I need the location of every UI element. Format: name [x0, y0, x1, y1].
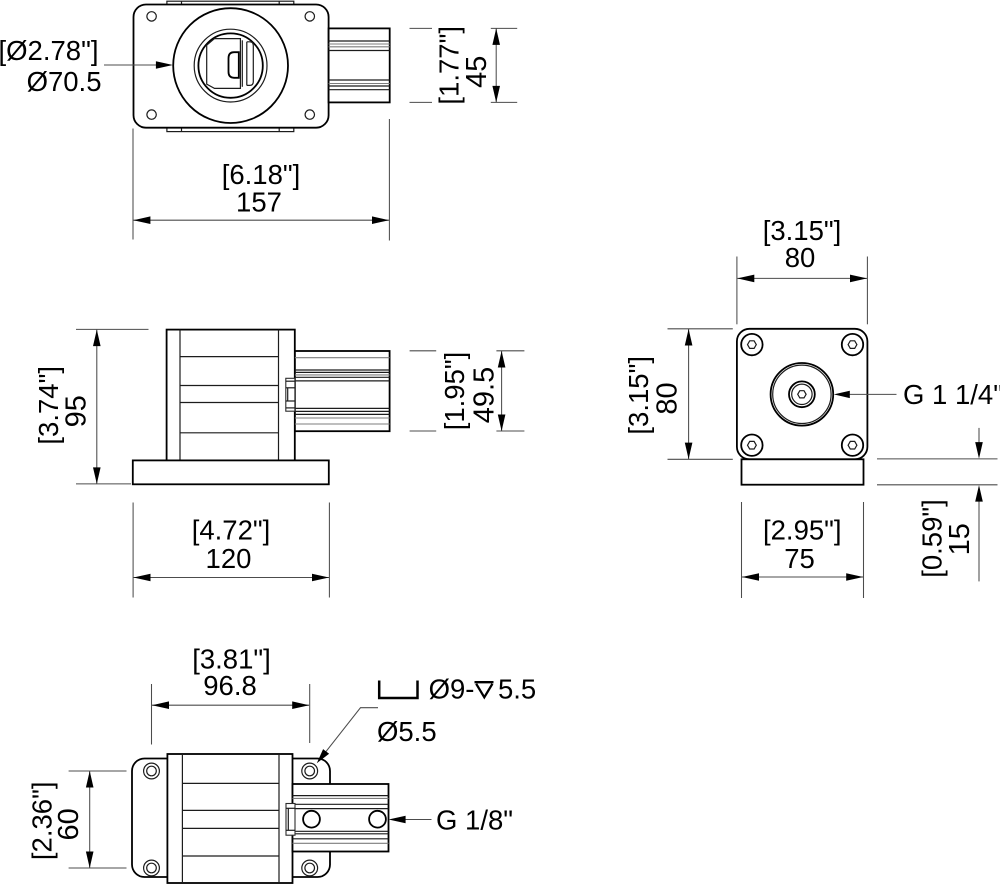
bottom view port hole right: [369, 811, 386, 828]
dimension 120 / 4.72in (base flange width): [133, 503, 329, 598]
svg-text:[3.74"]: [3.74"]: [33, 366, 64, 445]
top view shaft key knob: [229, 52, 239, 78]
top view bore thick ring: [198, 33, 262, 97]
svg-text:75: 75: [784, 543, 815, 574]
top view boss circle Ø70.5: [173, 8, 288, 123]
svg-text:5.5: 5.5: [498, 673, 536, 704]
svg-text:Ø70.5: Ø70.5: [27, 66, 102, 97]
top view bolt hole bottom-right: [305, 110, 314, 119]
end view socket screw top-right: [842, 334, 863, 355]
top view bolt hole bottom-left: [147, 110, 156, 119]
svg-text:157: 157: [236, 187, 282, 218]
svg-text:96.8: 96.8: [203, 670, 257, 701]
end view square flange: [737, 329, 868, 460]
svg-text:80: 80: [651, 382, 683, 414]
bottom view bolt hole top-right: [302, 763, 318, 779]
dimension 80 / 3.15in (end view height): [623, 329, 733, 460]
svg-text:80: 80: [785, 242, 816, 273]
svg-text:120: 120: [206, 543, 252, 574]
top view body tab bottom: [167, 128, 294, 132]
top view mounting flange plate: [134, 5, 329, 128]
front view side fitting: [286, 378, 295, 411]
dimension 45 / 1.77in (top view shaft height): [410, 26, 518, 105]
svg-text:60: 60: [53, 808, 85, 840]
svg-text:G 1 1/4": G 1 1/4": [903, 379, 1000, 410]
svg-text:Ø5.5: Ø5.5: [377, 716, 437, 747]
top view bolt hole top-left: [147, 12, 156, 21]
dimension 157 / 6.18in (top view width): [133, 119, 389, 241]
bottom view gear body: [167, 754, 292, 883]
front view port block: [295, 351, 390, 431]
label leader G 1 1/4: [834, 379, 1000, 410]
top view bore outer ring: [194, 29, 267, 102]
front view gear body: [167, 330, 295, 461]
svg-text:95: 95: [60, 395, 92, 427]
end view socket screw bottom-right: [842, 435, 863, 456]
svg-text:[Ø2.78"]: [Ø2.78"]: [0, 35, 99, 66]
dimension 60 / 2.36in (bolt spacing vertical): [26, 771, 126, 868]
svg-text:[3.15"]: [3.15"]: [623, 356, 654, 435]
dimension 49.5 / 1.95in (port height): [410, 351, 525, 431]
dimension 95 / 3.74in (front view height): [33, 329, 149, 484]
svg-text:Ø9-: Ø9-: [429, 673, 475, 704]
svg-text:49.5: 49.5: [468, 367, 500, 423]
svg-text:15: 15: [944, 523, 976, 555]
top view shaft hub face: [207, 39, 241, 89]
svg-text:G 1/8": G 1/8": [436, 805, 513, 836]
note counterbore Ø9 depth 5.5: [379, 673, 536, 704]
end view pedestal: [742, 459, 864, 484]
svg-text:[4.72"]: [4.72"]: [192, 514, 271, 545]
dimension 15 / 0.59in (pedestal height): [877, 428, 998, 582]
label leader Ø2.78 Ø70.5: [0, 35, 173, 97]
top view body tab top: [167, 1, 294, 4]
dimension 80 / 3.15in (end view width): [737, 215, 868, 324]
label leader G 1/8: [389, 805, 513, 836]
dimension 75 / 2.95in (pedestal width): [742, 502, 864, 598]
svg-text:[0.59"]: [0.59"]: [916, 499, 947, 578]
bottom view side fitting: [286, 804, 295, 836]
top view bolt hole top-right: [305, 12, 314, 21]
bottom view bolt hole bottom-right: [302, 860, 318, 876]
end view socket screw top-left: [741, 334, 762, 355]
bottom view mounting flange plate: [132, 759, 330, 878]
front view base flange: [133, 460, 329, 484]
bottom view port hole left: [303, 811, 320, 828]
end view port boss G 1 1/4: [771, 363, 834, 426]
top view shaft stub right: [329, 28, 390, 102]
bottom view bolt hole bottom-left: [144, 860, 160, 876]
bottom view port block G 1/8: [293, 784, 389, 852]
svg-text:[2.95"]: [2.95"]: [763, 514, 842, 545]
bottom view bolt hole top-left: [144, 763, 160, 779]
svg-text:[1.77"]: [1.77"]: [433, 26, 464, 105]
svg-text:[1.95"]: [1.95"]: [439, 352, 470, 431]
svg-text:45: 45: [461, 56, 493, 88]
end view socket screw bottom-left: [741, 435, 762, 456]
top view hub step lines: [242, 40, 253, 87]
dimension 96.8 / 3.81in (bolt spacing): [152, 643, 310, 744]
leader line counterbore note: [317, 708, 378, 764]
